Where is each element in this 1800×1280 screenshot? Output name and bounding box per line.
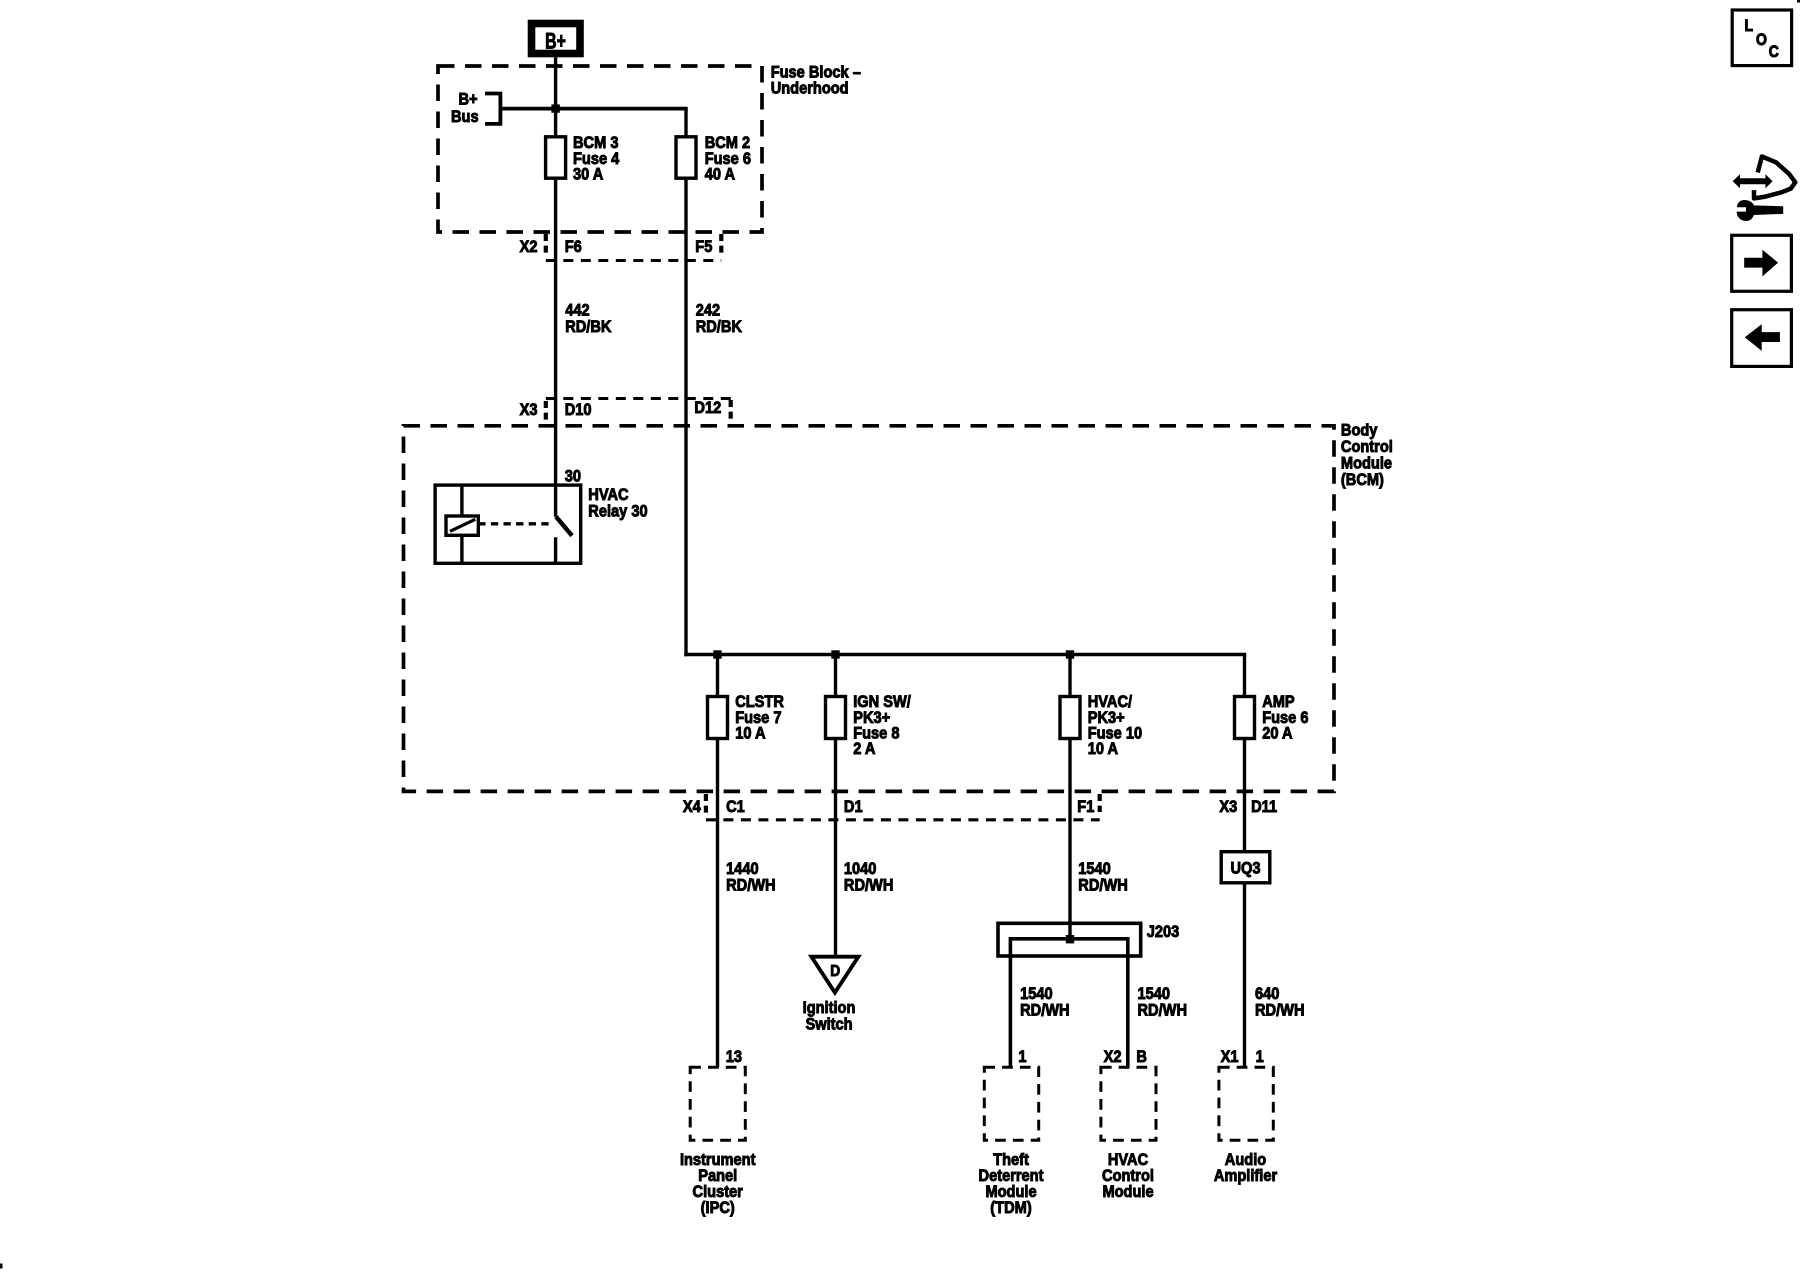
svg-text:Ignition: Ignition	[803, 999, 856, 1017]
pin 1 (TDM)	[1018, 1048, 1026, 1066]
svg-text:D: D	[830, 962, 840, 980]
svg-text:(IPC): (IPC)	[701, 1199, 735, 1217]
svg-text:RD/WH: RD/WH	[1255, 1002, 1305, 1020]
audio amplifier box	[1219, 1067, 1273, 1140]
svg-text:RD/BK: RD/BK	[696, 318, 743, 336]
fuse F5 (BCM 2, 40 A)	[676, 137, 696, 178]
junction node IGN SW branch	[831, 650, 839, 658]
svg-text:B: B	[1136, 1048, 1147, 1066]
svg-text:RD/WH: RD/WH	[1078, 877, 1128, 895]
theft deterrent module label	[979, 1151, 1045, 1217]
back arrow box	[1732, 310, 1792, 367]
connector X4 pins C1/D1/F1	[683, 794, 1100, 820]
wire UQ3 to audio amplifier	[1243, 883, 1246, 1068]
LOC navigation box	[1732, 10, 1791, 66]
relay pin 30 label	[565, 468, 581, 486]
wire bus to fuse 8	[834, 655, 837, 697]
svg-text:L: L	[1745, 17, 1754, 35]
fuse F10 (HVAC/PK3+, 10 A)	[1060, 697, 1080, 739]
svg-text:C: C	[1769, 43, 1779, 61]
svg-text:X3: X3	[1219, 798, 1237, 816]
instrument panel cluster label	[680, 1151, 756, 1217]
connector X3 pin D11	[1219, 798, 1277, 816]
svg-text:242: 242	[696, 302, 721, 320]
fuse F8 (IGN SW/PK3+, 2 A)	[826, 697, 846, 739]
ignition switch label	[803, 999, 856, 1034]
pin 13 (IPC)	[726, 1048, 742, 1066]
svg-text:20 A: 20 A	[1262, 724, 1293, 742]
wire bus to fuse 7	[716, 655, 719, 697]
svg-text:C1: C1	[726, 798, 745, 816]
junction node HVAC branch	[1066, 650, 1074, 658]
svg-text:B+: B+	[459, 91, 478, 109]
svg-text:1540: 1540	[1020, 985, 1053, 1003]
svg-text:1540: 1540	[1138, 985, 1171, 1003]
page corner mark	[1797, 0, 1800, 3]
svg-text:30 A: 30 A	[573, 166, 604, 184]
RPO UQ3 box	[1221, 852, 1270, 883]
wire B+ bus	[500, 109, 687, 137]
fuse F8 (IGN SW/PK3+, 2 A) label	[853, 693, 911, 758]
svg-text:Bus: Bus	[451, 108, 479, 126]
theft deterrent module box	[984, 1067, 1038, 1140]
svg-text:O: O	[1756, 31, 1767, 49]
junction node CLSTR branch	[713, 650, 721, 658]
svg-text:(BCM): (BCM)	[1341, 471, 1384, 489]
wire 442 RD/BK (fuse 4 to BCM D10)	[554, 178, 557, 517]
svg-text:RD/WH: RD/WH	[1020, 1002, 1070, 1020]
svg-text:1040: 1040	[844, 860, 877, 878]
svg-text:Underhood: Underhood	[771, 80, 849, 98]
svg-text:Relay 30: Relay 30	[588, 503, 647, 521]
wire bus to fuse 6 (AMP)	[1243, 655, 1246, 697]
B+ bus terminal	[451, 91, 500, 127]
fuse block underhood box	[438, 66, 762, 232]
svg-text:1: 1	[1018, 1048, 1026, 1066]
relay HVAC Relay 30	[435, 485, 581, 563]
label wire 1040 RD/WH	[844, 860, 894, 895]
svg-text:X4: X4	[683, 798, 701, 816]
svg-text:RD/WH: RD/WH	[726, 877, 776, 895]
junction node B+ bus	[551, 104, 559, 112]
svg-text:HVAC: HVAC	[588, 486, 629, 504]
label wire 640 RD/WH	[1255, 985, 1305, 1020]
svg-text:X3: X3	[520, 401, 538, 419]
svg-text:(TDM): (TDM)	[990, 1199, 1031, 1217]
svg-text:Switch: Switch	[805, 1016, 852, 1034]
connector X2 pin F6/F5	[520, 234, 722, 261]
fuse F6 (AMP, 20 A)	[1235, 697, 1255, 739]
svg-text:F6: F6	[565, 238, 582, 256]
wire 242 RD/BK (fuse 6 to BCM bus)	[684, 178, 1246, 656]
forward arrow box	[1732, 235, 1792, 291]
BCM label	[1341, 421, 1393, 489]
wire AMP fuse to D11/UQ3	[1243, 739, 1246, 854]
ignition switch terminal D	[811, 957, 858, 993]
connector X3 pin D10/D12	[520, 399, 731, 422]
body control module (BCM) box	[404, 426, 1335, 792]
wire B+ to Fuse 4	[554, 57, 557, 137]
terminal B+	[532, 24, 581, 55]
pin X2 B (HVAC control module)	[1104, 1048, 1147, 1066]
fuse block underhood label	[771, 63, 861, 97]
wire fuse 8 to D1	[834, 739, 837, 957]
fuse F7 (CLSTR, 10 A)	[708, 697, 728, 739]
HVAC control module box	[1101, 1067, 1156, 1140]
svg-text:Module: Module	[1341, 454, 1392, 472]
instrument panel cluster box	[690, 1067, 745, 1140]
svg-text:RD/BK: RD/BK	[565, 318, 612, 336]
svg-text:1: 1	[1256, 1048, 1264, 1066]
label wire 1540 RD/WH (TDM)	[1020, 985, 1070, 1020]
svg-text:30: 30	[565, 468, 581, 486]
left edge mark	[0, 1264, 3, 1269]
label wire 1540 RD/WH	[1078, 860, 1128, 895]
label wire 242 RD/BK	[696, 302, 743, 337]
audio amplifier label	[1214, 1151, 1277, 1185]
label wire 442 RD/BK	[565, 302, 612, 337]
svg-text:X2: X2	[520, 238, 538, 256]
svg-text:RD/WH: RD/WH	[844, 877, 894, 895]
svg-text:D11: D11	[1251, 798, 1277, 816]
svg-text:13: 13	[726, 1048, 742, 1066]
fuse F7 (CLSTR, 10 A) label	[735, 693, 784, 742]
svg-text:J203: J203	[1147, 923, 1180, 941]
svg-text:UQ3: UQ3	[1230, 860, 1260, 878]
svg-text:X1: X1	[1221, 1048, 1239, 1066]
svg-text:1540: 1540	[1078, 860, 1111, 878]
relay label	[588, 486, 647, 521]
svg-text:RD/WH: RD/WH	[1138, 1002, 1188, 1020]
wire fuse 10 to F1	[1068, 739, 1071, 941]
svg-text:F1: F1	[1077, 798, 1094, 816]
svg-text:Amplifier: Amplifier	[1214, 1167, 1277, 1185]
svg-text:D1: D1	[844, 798, 863, 816]
svg-text:442: 442	[565, 302, 590, 320]
J203 label	[1147, 923, 1180, 941]
label wire 1440 RD/WH	[726, 860, 776, 895]
svg-text:40 A: 40 A	[705, 166, 736, 184]
svg-text:B+: B+	[545, 30, 566, 54]
svg-text:F5: F5	[695, 238, 712, 256]
HVAC control module label	[1102, 1151, 1154, 1201]
splice pack J203	[998, 923, 1141, 1067]
fuse F4 label	[573, 134, 619, 184]
svg-text:10 A: 10 A	[1088, 740, 1119, 758]
svg-text:640: 640	[1255, 985, 1280, 1003]
svg-text:D10: D10	[565, 401, 592, 419]
wire bus to fuse 10	[1068, 655, 1071, 697]
fuse F4 (BCM 3, 30 A)	[546, 137, 566, 178]
svg-text:Module: Module	[1102, 1183, 1153, 1201]
label wire 1540 RD/WH (HVAC)	[1138, 985, 1188, 1020]
fuse F5 label	[705, 134, 751, 184]
fuse F6 (AMP, 20 A) label	[1262, 693, 1308, 742]
pin X1 1 (audio amplifier)	[1221, 1048, 1264, 1066]
svg-text:D12: D12	[694, 399, 721, 417]
svg-text:X2: X2	[1104, 1048, 1122, 1066]
wire fuse 7 to C1	[716, 739, 719, 1068]
svg-text:10 A: 10 A	[735, 724, 766, 742]
svg-text:1440: 1440	[726, 860, 759, 878]
svg-text:Body: Body	[1341, 421, 1378, 439]
svg-text:2 A: 2 A	[853, 740, 876, 758]
hotlink arrows icon	[1733, 157, 1796, 221]
svg-text:Control: Control	[1341, 438, 1393, 456]
fuse F10 (HVAC/PK3+, 10 A) label	[1088, 693, 1143, 758]
